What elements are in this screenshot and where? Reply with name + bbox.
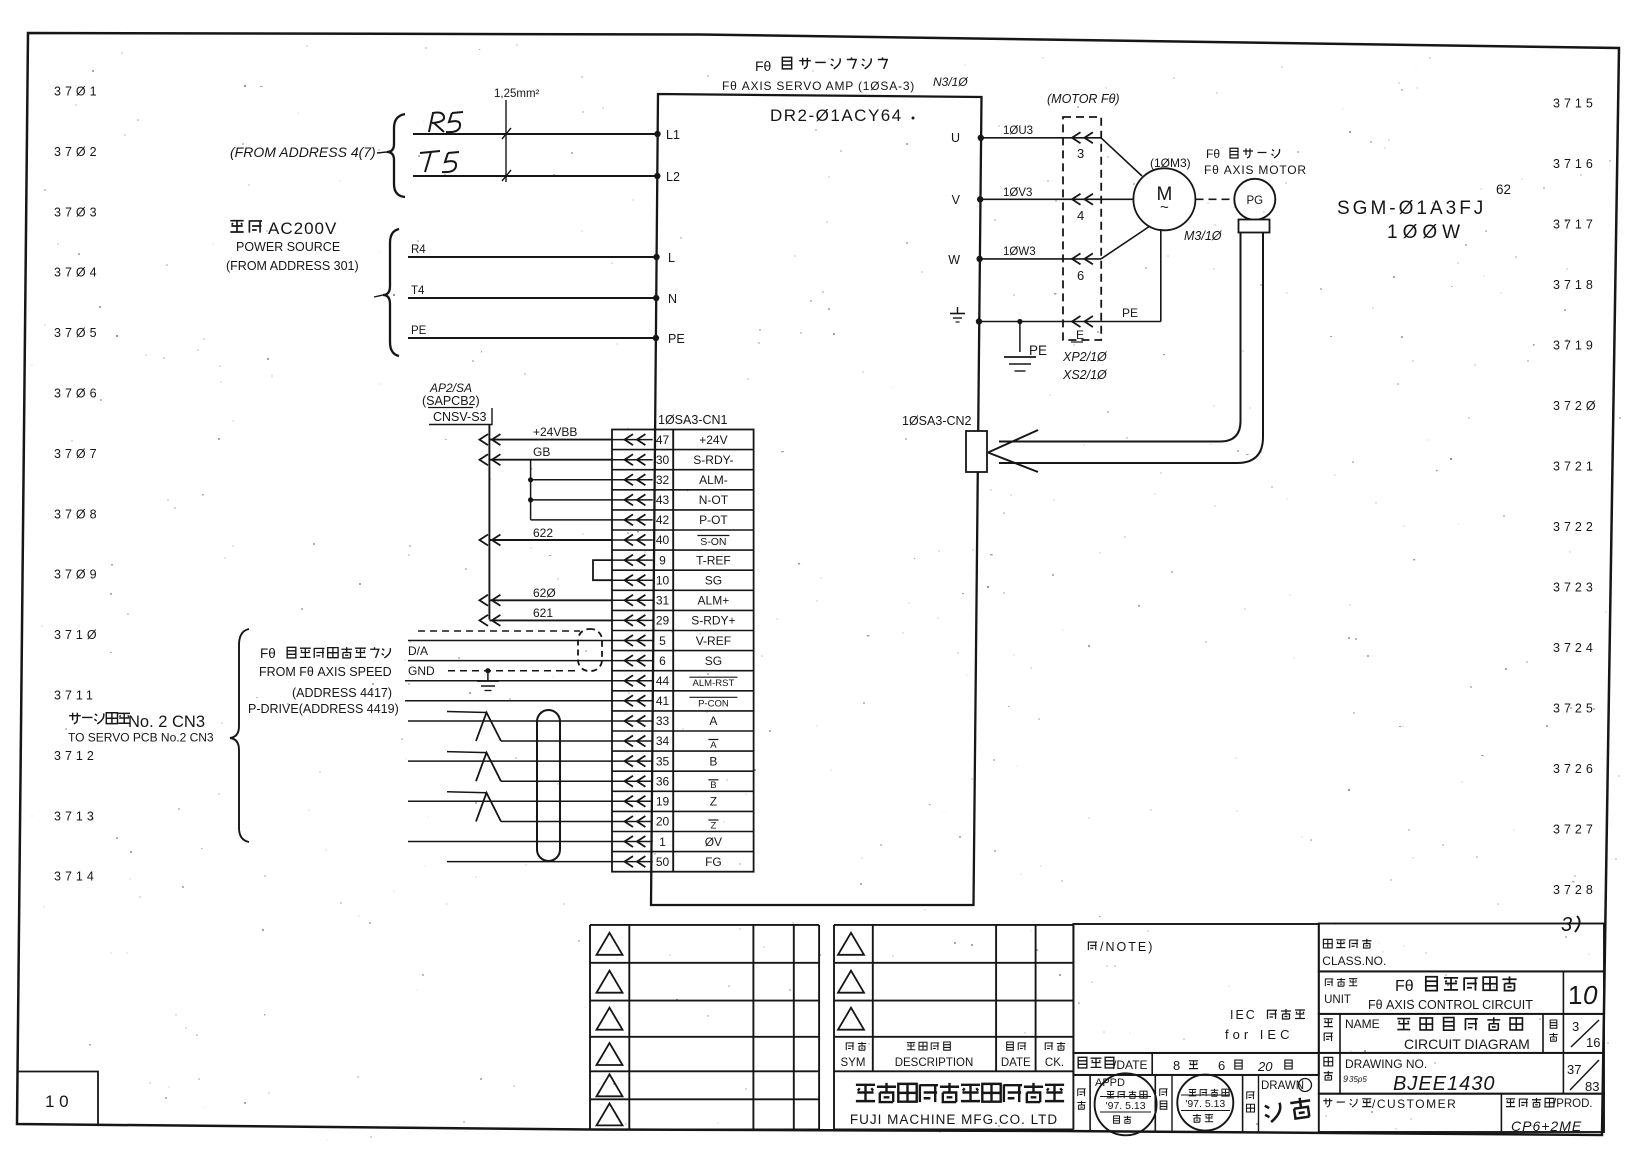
svg-text:Fθ: Fθ bbox=[1395, 978, 1414, 995]
svg-text:N: N bbox=[668, 292, 677, 306]
svg-text:37Ø7: 37Ø7 bbox=[54, 447, 101, 461]
revision triangles left bbox=[597, 933, 623, 1126]
label APPD approval bbox=[1078, 1089, 1086, 1097]
stamp circle 1 bbox=[1095, 1073, 1157, 1135]
svg-text:B: B bbox=[710, 780, 716, 791]
junction dot N-OT bbox=[528, 497, 533, 502]
svg-text:1ØSA3-CN1: 1ØSA3-CN1 bbox=[658, 413, 728, 427]
svg-text:UNIT: UNIT bbox=[1324, 994, 1351, 1006]
wire R5 to L1 bbox=[413, 133, 658, 135]
svg-text:PE: PE bbox=[411, 325, 427, 337]
wire 0V bbox=[408, 841, 612, 843]
svg-text:3: 3 bbox=[1572, 1019, 1579, 1034]
svg-text:36: 36 bbox=[656, 775, 670, 789]
svg-text:10: 10 bbox=[656, 574, 670, 588]
terminal node L1 bbox=[654, 131, 660, 137]
rev header DESCRIPTION bbox=[907, 1043, 915, 1050]
label unit name (Japanese) bbox=[1325, 979, 1333, 987]
handwritten label T5 bbox=[420, 151, 440, 172]
svg-text:50: 50 bbox=[656, 855, 670, 869]
junction dot ALM- bbox=[528, 477, 533, 482]
svg-text:1ØØW: 1ØØW bbox=[1387, 222, 1465, 243]
svg-text:3721: 3721 bbox=[1553, 460, 1597, 474]
svg-text:L: L bbox=[668, 251, 675, 265]
loop T-REF to SG bbox=[593, 560, 612, 580]
svg-text:3726: 3726 bbox=[1553, 762, 1597, 776]
svg-text:NAME: NAME bbox=[1345, 1017, 1380, 1031]
svg-text:3713: 3713 bbox=[54, 809, 98, 823]
terminal node N bbox=[653, 295, 659, 301]
wire ALM-RST bbox=[405, 680, 612, 682]
class no box bbox=[1319, 924, 1604, 972]
twisted pair Z /Z bbox=[408, 800, 612, 802]
label zuban vertical (Japanese) bbox=[1324, 1057, 1333, 1066]
svg-text:0: 0 bbox=[1583, 980, 1598, 1010]
svg-text:FG: FG bbox=[705, 855, 722, 869]
svg-text:BJEE1430: BJEE1430 bbox=[1393, 1073, 1496, 1095]
terminal node U bbox=[978, 135, 984, 141]
svg-text:CNSV-S3: CNSV-S3 bbox=[433, 410, 487, 424]
svg-text:/DATE: /DATE bbox=[1113, 1058, 1147, 1072]
svg-text:CP6+2ME: CP6+2ME bbox=[1511, 1118, 1582, 1134]
date row bbox=[1073, 1053, 1318, 1075]
svg-text:20: 20 bbox=[1257, 1059, 1273, 1074]
pin arrows into CN1 bbox=[612, 434, 653, 867]
svg-text:'97. 5.13: '97. 5.13 bbox=[1106, 1100, 1146, 1112]
svg-text:37Ø8: 37Ø8 bbox=[54, 507, 101, 521]
svg-text:37Ø3: 37Ø3 bbox=[54, 205, 101, 219]
svg-text:8: 8 bbox=[1173, 1058, 1180, 1073]
svg-text:No. 2 CN3: No. 2 CN3 bbox=[128, 713, 205, 731]
svg-text:A: A bbox=[710, 740, 717, 751]
svg-text:35p5: 35p5 bbox=[1349, 1075, 1367, 1084]
label date (Japanese) bbox=[1078, 1057, 1087, 1068]
wire +24VBB bbox=[489, 439, 612, 441]
svg-text:37Ø6: 37Ø6 bbox=[54, 387, 101, 401]
svg-text:ALM-RST: ALM-RST bbox=[693, 678, 735, 689]
svg-text:DESCRIPTION: DESCRIPTION bbox=[895, 1057, 974, 1069]
svg-text:T-REF: T-REF bbox=[696, 553, 731, 567]
svg-text:29: 29 bbox=[656, 614, 670, 628]
wire size leader line bbox=[505, 100, 507, 182]
svg-text:371Ø: 371Ø bbox=[54, 628, 101, 642]
label power source AC200V (Japanese) bbox=[230, 221, 243, 232]
servo amp enclosure 10SA-3 box bbox=[651, 94, 982, 905]
encoder PG bbox=[1234, 179, 1275, 220]
terminal node PE bbox=[653, 335, 659, 341]
svg-text:S-ON: S-ON bbox=[700, 536, 726, 548]
svg-text:IEC: IEC bbox=[1230, 1008, 1257, 1022]
svg-text:34: 34 bbox=[656, 734, 670, 748]
rev header CK bbox=[1045, 1043, 1053, 1051]
svg-text:DRAWING NO.: DRAWING NO. bbox=[1345, 1057, 1427, 1071]
svg-text:L2: L2 bbox=[666, 170, 680, 184]
wire 621 to S-RDY+ bbox=[489, 619, 612, 621]
pin numbers column bbox=[656, 433, 670, 869]
svg-text:42: 42 bbox=[656, 513, 670, 527]
earth symbol PE bbox=[1004, 356, 1036, 358]
svg-text:40: 40 bbox=[656, 533, 670, 547]
svg-text:FUJI MACHINE MFG.CO. LTD: FUJI MACHINE MFG.CO. LTD bbox=[850, 1112, 1058, 1127]
svg-text:CIRCUIT DIAGRAM: CIRCUIT DIAGRAM bbox=[1404, 1036, 1530, 1052]
svg-text:3715: 3715 bbox=[1553, 97, 1597, 111]
wire V phase 10V3 bbox=[980, 198, 1133, 200]
pin 4 arrow bbox=[1072, 194, 1081, 205]
svg-text:Fθ AXIS MOTOR: Fθ AXIS MOTOR bbox=[1204, 163, 1307, 177]
svg-text:AP2/SA: AP2/SA bbox=[429, 381, 472, 395]
PG cable gland bbox=[1239, 220, 1270, 233]
svg-text:1 0: 1 0 bbox=[45, 1092, 69, 1111]
company name Fuji Machine (Japanese) bbox=[856, 1085, 875, 1101]
svg-text:B: B bbox=[709, 754, 717, 768]
drawn signature Esaka (handwritten) bbox=[1263, 1096, 1312, 1122]
encoder cable bbox=[999, 233, 1241, 442]
svg-text:ALM-: ALM- bbox=[699, 473, 728, 487]
svg-text:1ØSA3-CN2: 1ØSA3-CN2 bbox=[902, 414, 972, 428]
svg-text:L1: L1 bbox=[666, 128, 680, 142]
terminal node W bbox=[976, 256, 982, 262]
svg-text:3719: 3719 bbox=[1553, 339, 1597, 353]
svg-text:PE: PE bbox=[1122, 306, 1138, 320]
svg-text:N3/1Ø: N3/1Ø bbox=[933, 75, 968, 89]
svg-text:44: 44 bbox=[656, 674, 670, 688]
svg-text:1: 1 bbox=[659, 835, 666, 849]
svg-text:S-RDY-: S-RDY- bbox=[693, 453, 733, 467]
svg-text:37Ø4: 37Ø4 bbox=[54, 266, 101, 280]
svg-text:CLASS.NO.: CLASS.NO. bbox=[1322, 954, 1386, 968]
svg-text:GND: GND bbox=[408, 664, 435, 678]
svg-text:FROM Fθ AXIS SPEED: FROM Fθ AXIS SPEED bbox=[259, 665, 392, 679]
svg-text:3725: 3725 bbox=[1553, 702, 1597, 716]
svg-text:PE: PE bbox=[1029, 343, 1047, 358]
svg-text:+24VBB: +24VBB bbox=[533, 425, 577, 439]
svg-text:SG: SG bbox=[705, 654, 722, 668]
label customer (Japanese) bbox=[1323, 1098, 1332, 1107]
svg-text:622: 622 bbox=[533, 526, 553, 540]
svg-text:20: 20 bbox=[656, 815, 670, 829]
twisted pair B /B bbox=[408, 760, 612, 762]
rev header SYM bbox=[846, 1043, 854, 1051]
right line numbers 3715-3728 bbox=[1553, 97, 1600, 898]
shield oval dashed bbox=[578, 629, 602, 671]
sheet tab 10 bottom left bbox=[17, 1072, 98, 1125]
name circuit diagram kanji bbox=[1397, 1019, 1410, 1030]
svg-text:3718: 3718 bbox=[1553, 278, 1597, 292]
svg-text:DATE: DATE bbox=[1001, 1057, 1031, 1069]
svg-text:32: 32 bbox=[656, 473, 670, 487]
svg-text:1,25mm²: 1,25mm² bbox=[494, 88, 540, 100]
svg-text:~: ~ bbox=[1160, 199, 1169, 216]
svg-text:(MOTOR Fθ): (MOTOR Fθ) bbox=[1047, 92, 1120, 106]
svg-text:33: 33 bbox=[656, 714, 670, 728]
svg-text:SG: SG bbox=[705, 574, 722, 588]
label name vertical (Japanese) bbox=[1324, 1019, 1333, 1027]
rev header DATE bbox=[1007, 1042, 1014, 1050]
svg-text:372Ø: 372Ø bbox=[1553, 399, 1600, 413]
wire PE to motor bbox=[979, 321, 1101, 323]
terminal node PE amp bbox=[976, 318, 982, 324]
svg-text:35: 35 bbox=[656, 754, 670, 768]
brace to servo PCB No.2 CN3 bbox=[230, 629, 249, 842]
svg-text:T4: T4 bbox=[411, 285, 425, 297]
svg-text:M3/1Ø: M3/1Ø bbox=[1184, 229, 1223, 243]
unit row box bbox=[1319, 971, 1604, 1014]
svg-text:+24V: +24V bbox=[699, 433, 727, 447]
wire W phase 10W3 bbox=[980, 258, 1101, 260]
svg-text:1ØU3: 1ØU3 bbox=[1003, 125, 1033, 137]
svg-text:1: 1 bbox=[1568, 980, 1582, 1010]
PE stub to earth bbox=[1019, 322, 1021, 353]
revision triangles right bbox=[838, 933, 864, 1030]
svg-text:Z: Z bbox=[710, 821, 716, 832]
svg-text:6: 6 bbox=[1077, 268, 1084, 283]
svg-text:5: 5 bbox=[659, 634, 666, 648]
svg-text:/PROD.: /PROD. bbox=[1553, 1098, 1593, 1110]
label CHKD check bbox=[1160, 1089, 1168, 1097]
wire 622 to S-ON bbox=[489, 539, 612, 541]
svg-text:37Ø1: 37Ø1 bbox=[54, 85, 101, 99]
svg-text:3712: 3712 bbox=[54, 749, 98, 763]
wire T5 to L2 bbox=[413, 175, 657, 177]
wire to SG pin6 bbox=[408, 660, 612, 662]
svg-text:1ØW3: 1ØW3 bbox=[1003, 246, 1036, 258]
svg-text:N-OT: N-OT bbox=[699, 493, 729, 507]
wire PE input bbox=[408, 337, 656, 339]
svg-text:R4: R4 bbox=[411, 244, 426, 256]
svg-text:3717: 3717 bbox=[1553, 218, 1597, 232]
cable arrow into CN2 bbox=[988, 430, 1038, 453]
svg-text:1ØV3: 1ØV3 bbox=[1003, 187, 1032, 199]
svg-text:3716: 3716 bbox=[1553, 157, 1597, 171]
label NOTE bbox=[1088, 942, 1097, 950]
label page vertical bbox=[1550, 1020, 1557, 1028]
connector table 10SA3-CN1 grid bbox=[612, 430, 754, 872]
ground symbol at shield bbox=[485, 668, 490, 673]
name row box bbox=[1319, 1014, 1604, 1053]
svg-text:37Ø2: 37Ø2 bbox=[54, 145, 101, 159]
svg-text:for IEC: for IEC bbox=[1225, 1027, 1293, 1042]
svg-text:POWER SOURCE: POWER SOURCE bbox=[236, 240, 340, 254]
svg-text:37Ø5: 37Ø5 bbox=[54, 326, 101, 340]
terminal node L2 bbox=[654, 173, 660, 179]
svg-text:V-REF: V-REF bbox=[696, 634, 731, 648]
svg-text:CK.: CK. bbox=[1045, 1057, 1064, 1069]
svg-text:30: 30 bbox=[656, 453, 670, 467]
svg-text:3722: 3722 bbox=[1553, 520, 1597, 534]
svg-text:P-OT: P-OT bbox=[699, 513, 728, 527]
svg-text:(1ØM3): (1ØM3) bbox=[1150, 156, 1191, 170]
svg-text:'97. 5.13: '97. 5.13 bbox=[1185, 1098, 1225, 1110]
shield dashed bottom bbox=[448, 670, 580, 672]
svg-text:Fθ: Fθ bbox=[1206, 147, 1220, 161]
svg-text:19: 19 bbox=[656, 795, 670, 809]
label servo PCB No.2 CN3 (Japanese) bbox=[69, 713, 81, 724]
svg-text:GB: GB bbox=[533, 445, 550, 459]
svg-text:(FROM ADDRESS 4(7): (FROM ADDRESS 4(7) bbox=[230, 144, 376, 160]
dashed shaft link bbox=[1196, 198, 1234, 200]
svg-text:W: W bbox=[948, 253, 960, 267]
left line numbers 3701-3714 bbox=[54, 85, 101, 884]
svg-text:Fθ AXIS CONTROL CIRCUIT: Fθ AXIS CONTROL CIRCUIT bbox=[1368, 998, 1533, 1012]
handwritten label R5 bbox=[429, 113, 444, 133]
svg-text:43: 43 bbox=[656, 493, 670, 507]
svg-text:SYM: SYM bbox=[841, 1057, 866, 1069]
wire T4 to N bbox=[408, 297, 656, 299]
svg-text:41: 41 bbox=[656, 694, 670, 708]
svg-text:9: 9 bbox=[1343, 1074, 1348, 1084]
label class number (Japanese) bbox=[1323, 939, 1332, 948]
svg-text:(FROM ADDRESS 301): (FROM ADDRESS 301) bbox=[226, 259, 359, 273]
brace from address 417 bbox=[387, 114, 405, 197]
svg-text:U: U bbox=[951, 131, 960, 145]
svg-text:XS2/1Ø: XS2/1Ø bbox=[1062, 368, 1108, 382]
svg-text:621: 621 bbox=[533, 606, 553, 620]
svg-text:P-DRIVE(ADDRESS 4419): P-DRIVE(ADDRESS 4419) bbox=[248, 702, 399, 716]
svg-text:3724: 3724 bbox=[1553, 641, 1597, 655]
drawing no row box bbox=[1319, 1053, 1604, 1094]
svg-text:4: 4 bbox=[1077, 208, 1084, 223]
motor M 10M3 bbox=[1133, 168, 1195, 230]
svg-text:AC200V: AC200V bbox=[268, 219, 337, 238]
svg-text:16: 16 bbox=[1586, 1035, 1600, 1050]
wire GB bbox=[489, 459, 612, 461]
svg-text:Fθ AXIS SERVO AMP (1ØSA-3): Fθ AXIS SERVO AMP (1ØSA-3) bbox=[722, 79, 915, 93]
pin 6 arrow bbox=[1072, 253, 1081, 264]
terminal node L bbox=[653, 254, 659, 260]
svg-text:Fθ: Fθ bbox=[755, 58, 772, 74]
svg-text:31: 31 bbox=[656, 594, 670, 608]
svg-text:37Ø9: 37Ø9 bbox=[54, 568, 101, 582]
bus CNSV-S3 vertical bbox=[488, 425, 490, 620]
terminal node V bbox=[977, 196, 983, 202]
note box bbox=[1073, 924, 1318, 1053]
svg-text:6: 6 bbox=[659, 654, 666, 668]
signal name column bbox=[689, 433, 737, 869]
svg-text:3727: 3727 bbox=[1553, 823, 1597, 837]
motor connector dashed box XP2/10 bbox=[1063, 117, 1101, 340]
svg-text:/CUSTOMER: /CUSTOMER bbox=[1372, 1097, 1457, 1111]
wire R4 to L bbox=[408, 256, 657, 258]
wire FG bbox=[447, 861, 612, 863]
svg-text:TO SERVO PCB No.2 CN3: TO SERVO PCB No.2 CN3 bbox=[68, 731, 214, 745]
svg-text:Z: Z bbox=[710, 795, 717, 809]
svg-text:62: 62 bbox=[1496, 182, 1511, 197]
svg-text:37: 37 bbox=[1567, 1062, 1581, 1077]
wire U phase 10U3 bbox=[981, 137, 1101, 139]
wire P-CON P-DRIVE bbox=[405, 700, 612, 702]
svg-text:83: 83 bbox=[1585, 1079, 1599, 1094]
stamp circle 2 bbox=[1177, 1075, 1233, 1131]
svg-text:6: 6 bbox=[1218, 1058, 1225, 1073]
label prod no (Japanese) bbox=[1506, 1099, 1515, 1107]
svg-text:/NOTE): /NOTE) bbox=[1100, 940, 1154, 954]
svg-text:3728: 3728 bbox=[1553, 883, 1597, 897]
svg-text:P-CON: P-CON bbox=[698, 698, 729, 709]
svg-text:S-RDY+: S-RDY+ bbox=[691, 614, 735, 628]
svg-text:XP2/1Ø: XP2/1Ø bbox=[1062, 350, 1108, 364]
svg-text:3711: 3711 bbox=[54, 689, 97, 703]
svg-text:9: 9 bbox=[659, 553, 666, 567]
svg-text:PE: PE bbox=[668, 332, 685, 346]
pin 3 arrow bbox=[1072, 132, 1081, 143]
svg-text:DR2-Ø1ACY64: DR2-Ø1ACY64 bbox=[770, 106, 903, 125]
svg-text:SGM-Ø1A3FJ: SGM-Ø1A3FJ bbox=[1337, 198, 1486, 219]
svg-text:3: 3 bbox=[1077, 146, 1084, 161]
wire 620 to ALM+ bbox=[489, 599, 612, 601]
svg-text:(ADDRESS 4417): (ADDRESS 4417) bbox=[292, 686, 392, 700]
svg-text:ALM+: ALM+ bbox=[698, 594, 730, 608]
pin E arrow bbox=[1072, 316, 1081, 327]
svg-text:ØV: ØV bbox=[705, 835, 722, 849]
wire D/A to V-REF bbox=[408, 640, 612, 642]
wire branch to ALM- N-OT P-OT bbox=[530, 460, 532, 520]
customer row box bbox=[1319, 1094, 1604, 1132]
svg-text:3723: 3723 bbox=[1553, 581, 1597, 595]
svg-text:D/A: D/A bbox=[408, 644, 428, 658]
svg-text:DRAWN: DRAWN bbox=[1261, 1080, 1304, 1092]
svg-text:3714: 3714 bbox=[54, 870, 98, 884]
svg-text:3: 3 bbox=[1561, 914, 1572, 936]
stamp row cells bbox=[1073, 1074, 1318, 1076]
svg-text:PG: PG bbox=[1246, 195, 1263, 207]
svg-text:62Ø: 62Ø bbox=[533, 586, 556, 600]
svg-text:(SAPCB2): (SAPCB2) bbox=[422, 394, 480, 408]
twisted pair A /A bbox=[408, 720, 612, 722]
shield dashed top bbox=[418, 630, 580, 632]
svg-text:V: V bbox=[952, 193, 961, 207]
label DRAWN bbox=[1247, 1092, 1255, 1100]
svg-text:A: A bbox=[709, 714, 717, 728]
svg-text:47: 47 bbox=[656, 433, 670, 447]
title block revision table left bbox=[590, 925, 819, 1130]
svg-text:Fθ: Fθ bbox=[260, 646, 276, 661]
ground symbol at amp case bbox=[957, 307, 959, 313]
shield oval encoder wires bbox=[537, 710, 560, 861]
title block revision table right bbox=[834, 925, 1073, 1130]
brace power source group bbox=[383, 229, 399, 356]
